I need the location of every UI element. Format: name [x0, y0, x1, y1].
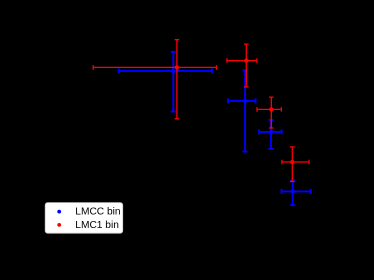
svg-text:LMCC bin: LMCC bin	[75, 207, 120, 218]
svg-text:LMC1 bin: LMC1 bin	[75, 220, 119, 231]
